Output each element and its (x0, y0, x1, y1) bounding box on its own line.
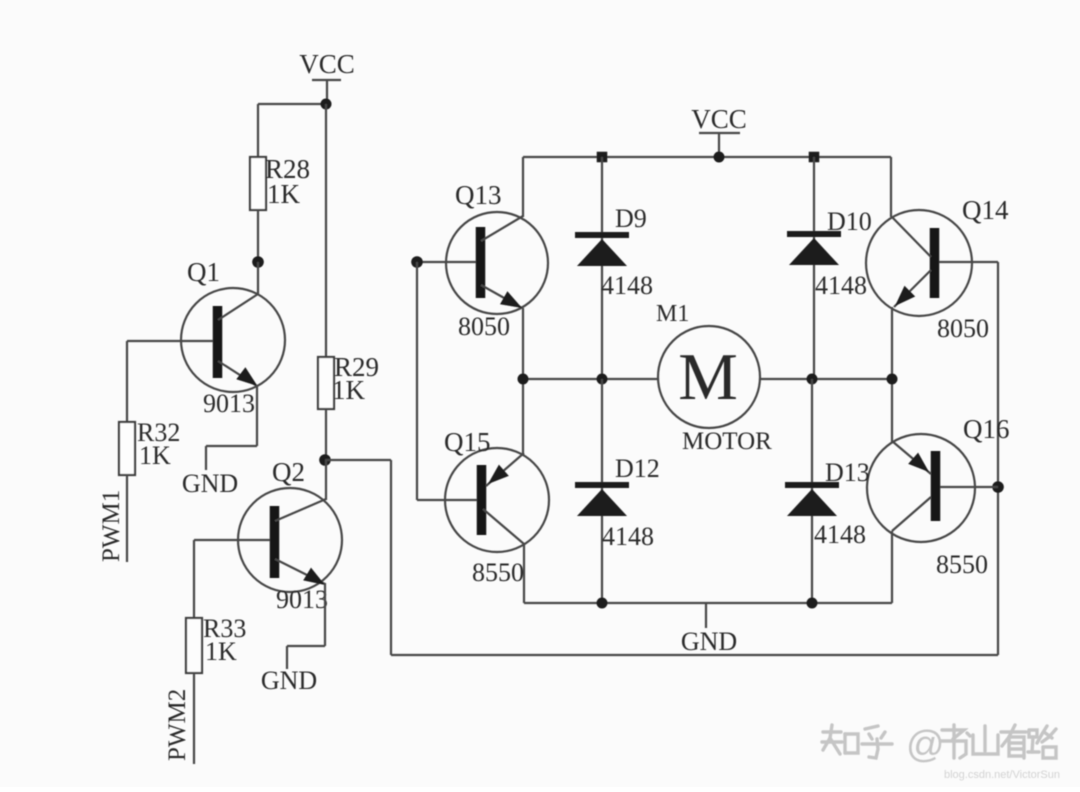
svg-text:M1: M1 (656, 301, 689, 327)
svg-text:8050: 8050 (937, 314, 989, 343)
svg-text:MOTOR: MOTOR (682, 428, 772, 455)
svg-text:1K: 1K (267, 179, 301, 209)
svg-text:GND: GND (182, 469, 238, 498)
svg-text:GND: GND (681, 627, 737, 656)
svg-text:4148: 4148 (815, 271, 867, 300)
svg-text:VCC: VCC (691, 104, 747, 134)
svg-text:PWM2: PWM2 (164, 689, 191, 761)
svg-text:Q15: Q15 (444, 427, 491, 457)
svg-text:4148: 4148 (601, 271, 653, 300)
svg-text:Q16: Q16 (963, 414, 1010, 444)
svg-text:1K: 1K (332, 375, 366, 405)
svg-text:Q13: Q13 (455, 180, 502, 210)
svg-text:Q2: Q2 (272, 457, 305, 487)
svg-text:9013: 9013 (276, 585, 328, 614)
svg-text:blog.csdn.net/VictorSun: blog.csdn.net/VictorSun (944, 769, 1060, 781)
svg-text:D10: D10 (827, 207, 872, 236)
svg-text:1K: 1K (139, 441, 171, 470)
svg-text:Q14: Q14 (962, 195, 1009, 225)
svg-text:D9: D9 (615, 204, 647, 233)
svg-text:PWM1: PWM1 (98, 490, 125, 562)
svg-text:GND: GND (261, 666, 317, 695)
svg-text:@: @ (906, 724, 945, 766)
svg-text:D13: D13 (825, 458, 870, 487)
svg-text:1K: 1K (205, 637, 237, 666)
svg-text:8050: 8050 (458, 312, 510, 341)
svg-text:M: M (678, 340, 738, 414)
svg-text:8550: 8550 (936, 550, 988, 579)
svg-text:9013: 9013 (203, 389, 255, 418)
svg-text:4148: 4148 (602, 522, 654, 551)
svg-text:VCC: VCC (299, 49, 355, 79)
svg-text:8550: 8550 (472, 558, 524, 587)
svg-text:4148: 4148 (814, 520, 866, 549)
svg-text:D12: D12 (615, 454, 660, 483)
svg-text:Q1: Q1 (187, 257, 220, 287)
